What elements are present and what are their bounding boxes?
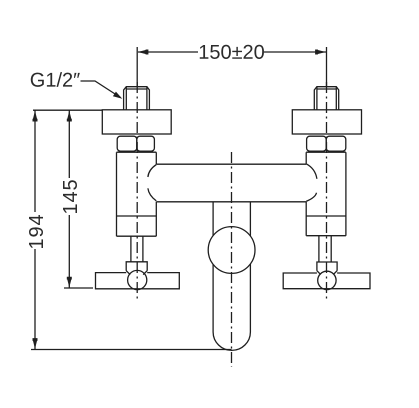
dimension 150±20 extension line right bbox=[326, 47, 328, 86]
left handle bar bbox=[96, 273, 180, 289]
dimension 150±20 line bbox=[138, 50, 327, 55]
svg-text:150±20: 150±20 bbox=[198, 42, 265, 64]
right valve body bbox=[306, 152, 346, 236]
spout tube bbox=[213, 202, 250, 332]
svg-text:G1/2″: G1/2″ bbox=[30, 70, 80, 92]
spout ball joint bbox=[208, 227, 255, 274]
left inlet nipple G1/2 bbox=[124, 87, 150, 110]
right handle bar edge through knob bbox=[323, 288, 331, 290]
right handle stem bbox=[319, 236, 331, 262]
right handle knob bbox=[318, 271, 336, 289]
left handle knob bbox=[128, 270, 147, 289]
dimension 150±20 extension line left bbox=[136, 47, 138, 87]
right wall flange bbox=[292, 110, 361, 134]
right handle hub bbox=[317, 262, 337, 275]
left handle bar edge through knob bbox=[133, 288, 141, 290]
dimension 194 line bbox=[33, 110, 38, 349]
centerline right assembly bbox=[326, 82, 328, 299]
top extension line for vertical dims bbox=[33, 109, 102, 111]
left handle stem bbox=[131, 236, 143, 262]
bottom extension line (194) bbox=[31, 349, 232, 351]
right handle bar bbox=[283, 273, 370, 289]
extension line at handle bottom (145) bbox=[64, 287, 93, 289]
centerline left assembly bbox=[136, 82, 138, 302]
body tube left end curve bbox=[148, 165, 156, 201]
body tube right end curve bbox=[306, 164, 317, 202]
left coupling nut bbox=[117, 136, 154, 151]
horizontal body tube bbox=[156, 164, 306, 202]
left handle hub bbox=[126, 262, 147, 275]
right coupling nut bbox=[307, 136, 346, 151]
left wall flange bbox=[102, 110, 171, 134]
spout bottom cap bbox=[213, 332, 250, 350]
dimension 145 line bbox=[67, 110, 72, 288]
leader line for G1/2" bbox=[81, 81, 123, 99]
left valve body bbox=[117, 152, 157, 236]
centerline spout bbox=[231, 152, 233, 367]
right inlet nipple G1/2 bbox=[314, 87, 338, 110]
svg-text:145: 145 bbox=[60, 178, 82, 214]
svg-text:194: 194 bbox=[26, 213, 48, 249]
